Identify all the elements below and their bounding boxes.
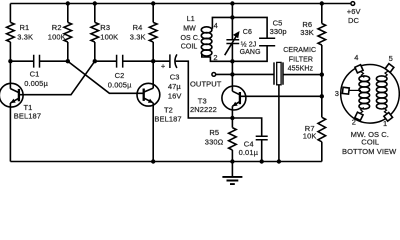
- label R1 3.3K: [17, 23, 33, 42]
- label T3 2N2222: [190, 97, 217, 114]
- resistor R1: [7, 22, 15, 42]
- svg-text:+: +: [161, 61, 166, 70]
- svg-text:½ 2J: ½ 2J: [241, 41, 257, 49]
- svg-text:2: 2: [213, 53, 217, 62]
- svg-text:T2: T2: [164, 106, 173, 115]
- svg-text:330Ω: 330Ω: [205, 138, 224, 147]
- svg-text:C1: C1: [30, 70, 40, 79]
- node T2 collector / C2 / C3 junction: [151, 59, 155, 63]
- svg-text:R5: R5: [209, 128, 219, 137]
- svg-text:100K: 100K: [100, 33, 118, 42]
- label C2 0.005u: [108, 71, 132, 89]
- resistor R6: [318, 24, 326, 46]
- junction rail/R2: [66, 1, 70, 5]
- node R2 / C1 junction: [66, 59, 70, 63]
- label C5 330p: [270, 18, 287, 36]
- junction C4 / ground rail: [260, 159, 264, 163]
- terminal +6V: [351, 2, 355, 6]
- svg-text:2: 2: [352, 117, 356, 126]
- node tank bottom (L1 pin2 / C5): [230, 59, 234, 63]
- svg-text:4: 4: [354, 53, 358, 62]
- MW coil left winding: [359, 76, 370, 109]
- svg-text:COIL: COIL: [361, 138, 379, 147]
- svg-text:C4: C4: [244, 139, 254, 148]
- svg-text:FILTER: FILTER: [289, 57, 313, 64]
- transistor T3: [222, 86, 246, 110]
- junction rail/R6: [320, 1, 324, 5]
- resistor R3: [91, 22, 99, 42]
- MW coil pin 2 tab: [355, 112, 363, 120]
- label L1 MW OSC COIL: [181, 16, 201, 50]
- svg-text:MW: MW: [183, 26, 196, 33]
- wire T2 emitter to ground rail: [152, 103, 154, 162]
- MW coil pin 5 tab: [385, 64, 394, 73]
- junction R5 / ground rail: [230, 159, 234, 163]
- svg-text:2N2222: 2N2222: [190, 105, 217, 114]
- label R6 33K: [300, 20, 314, 37]
- terminal OUTPUT: [212, 73, 216, 77]
- label T1 BEL187: [14, 103, 41, 120]
- label R4 3.3K: [130, 23, 146, 42]
- MW coil pin 3 tab: [342, 87, 349, 94]
- resistor R2: [64, 22, 72, 42]
- svg-text:0.01µ: 0.01µ: [239, 148, 259, 157]
- node R6 / filter output: [320, 72, 324, 76]
- svg-text:OUTPUT: OUTPUT: [190, 80, 222, 89]
- label C3 + 47u 16V: [161, 61, 182, 100]
- label T2 BEL187: [154, 106, 181, 124]
- svg-text:COIL: COIL: [181, 43, 198, 50]
- wire R6 leads: [321, 4, 323, 75]
- svg-text:C2: C2: [115, 71, 125, 80]
- transistor T2: [137, 83, 160, 106]
- wire coil bottom link: [202, 54, 233, 62]
- ceramic filter 455KHz: [274, 62, 283, 84]
- svg-text:33K: 33K: [300, 28, 314, 37]
- svg-text:R4: R4: [133, 23, 143, 32]
- transistor T1: [0, 83, 23, 107]
- wire OUTPUT link: [216, 73, 233, 75]
- capacitor C4: [256, 136, 268, 140]
- node T3 base / R7: [320, 94, 324, 98]
- MW coil pin5 lead: [384, 71, 388, 77]
- MW coil pin1 lead: [383, 108, 387, 114]
- wire R4 / T2 collector column: [152, 4, 154, 89]
- wire T3 base: [240, 95, 322, 97]
- capacitor C3 (electrolytic): [170, 54, 177, 68]
- node T3 collector / OUTPUT / filter: [230, 72, 234, 76]
- wire C3 to T3 emitter node: [176, 61, 233, 118]
- svg-text:R1: R1: [20, 23, 30, 32]
- node tank top (L1 pin4 / C5): [230, 15, 234, 19]
- wire R2 leads: [67, 4, 69, 62]
- svg-text:DC: DC: [348, 16, 360, 25]
- MW coil pin3 lead: [349, 89, 361, 91]
- svg-text:330p: 330p: [270, 27, 287, 36]
- wire T1 emitter to ground rail: [9, 103, 11, 162]
- MW osc coil can outline: [341, 65, 400, 124]
- svg-text:R3: R3: [100, 23, 110, 32]
- MW coil right winding: [376, 76, 387, 109]
- wire T3 emitter lead: [231, 106, 233, 127]
- capacitor C2: [117, 55, 123, 68]
- capacitor C6 (variable): [225, 31, 240, 55]
- svg-text:10K: 10K: [303, 132, 317, 141]
- svg-text:L1: L1: [187, 16, 195, 23]
- inductor L1: [201, 27, 212, 56]
- wire C1 link: [10, 60, 67, 62]
- svg-text:BEL187: BEL187: [14, 112, 41, 121]
- resistor R4: [149, 22, 157, 42]
- wire R6/R7 link: [321, 75, 323, 97]
- wire R5 to ground rail: [231, 150, 233, 162]
- svg-text:100K: 100K: [48, 33, 66, 42]
- svg-text:3: 3: [335, 89, 339, 98]
- svg-text:BOTTOM VIEW: BOTTOM VIEW: [342, 147, 397, 156]
- svg-text:3.3K: 3.3K: [17, 33, 33, 42]
- label +6V DC: [347, 7, 361, 25]
- svg-text:1: 1: [383, 119, 387, 128]
- junction rail/R3: [93, 1, 97, 5]
- svg-text:C3: C3: [170, 73, 180, 82]
- capacitor C5: [259, 38, 275, 46]
- wire R3 to T1 base (diagonal): [19, 61, 95, 94]
- svg-text:16V: 16V: [168, 91, 182, 100]
- label C6 1/2 2J GANG: [240, 29, 261, 56]
- ground: [222, 162, 242, 185]
- node R3 / C2 junction: [93, 59, 97, 63]
- resistor R7: [318, 117, 326, 142]
- svg-text:455KHz: 455KHz: [288, 66, 314, 73]
- label R5 330ohm: [205, 128, 224, 146]
- svg-text:BEL187: BEL187: [154, 114, 181, 123]
- wire C2 link: [95, 60, 153, 62]
- label MW OSC COIL BOTTOM VIEW: [342, 130, 397, 156]
- label R7 10K: [303, 124, 317, 140]
- wire filter output: [283, 74, 322, 76]
- capacitor C1: [34, 55, 40, 68]
- wire top +6V rail: [10, 3, 350, 5]
- svg-text:CERAMIC: CERAMIC: [283, 47, 316, 54]
- svg-text:3.3K: 3.3K: [130, 33, 146, 42]
- label CERAMIC FILTER 455KHz: [283, 47, 316, 72]
- wire filter ground pin: [278, 85, 280, 162]
- wire T1 collector column: [9, 4, 11, 89]
- wire T2 collector to C3: [153, 60, 170, 62]
- junction filter pin / ground rail: [277, 159, 281, 163]
- label R3 100K: [100, 23, 118, 42]
- MW coil pin 1 tab: [384, 112, 393, 121]
- wire C4 branch: [232, 118, 261, 162]
- svg-text:0.005µ: 0.005µ: [24, 79, 48, 88]
- label C4 0.01u: [239, 139, 259, 157]
- svg-text:5: 5: [389, 54, 393, 63]
- wire tank column / T3 collector: [231, 4, 233, 92]
- MW coil pin 4 tab: [355, 65, 363, 73]
- svg-text:47µ: 47µ: [168, 82, 182, 91]
- MW coil pin4 lead: [360, 71, 364, 77]
- resistor R5: [229, 128, 237, 150]
- svg-text:OS C.: OS C.: [181, 35, 201, 42]
- junction rail/tank: [230, 1, 234, 5]
- wire coil top link: [212, 17, 232, 28]
- label R2 100K: [48, 23, 66, 42]
- svg-text:C6: C6: [243, 29, 252, 36]
- svg-text:GANG: GANG: [240, 49, 261, 56]
- wire R2 to T2 base (diagonal): [68, 61, 144, 93]
- junction rail/R4: [151, 1, 155, 5]
- wire R3 leads: [94, 4, 96, 62]
- label C1 0.005u: [24, 70, 48, 88]
- wire bottom ground rail: [10, 161, 321, 163]
- wire filter input: [232, 73, 274, 75]
- wire R7 leads: [321, 96, 323, 161]
- wire C5 branch: [232, 17, 267, 61]
- junction T2 emitter / ground rail: [151, 159, 155, 163]
- svg-text:R2: R2: [52, 23, 62, 32]
- MW coil pin2 lead: [360, 108, 364, 114]
- node T3 emitter / C3 / C4: [230, 116, 234, 120]
- svg-text:4: 4: [214, 21, 218, 30]
- svg-text:0.005µ: 0.005µ: [108, 80, 132, 89]
- node T1 collector / C1 junction: [8, 59, 12, 63]
